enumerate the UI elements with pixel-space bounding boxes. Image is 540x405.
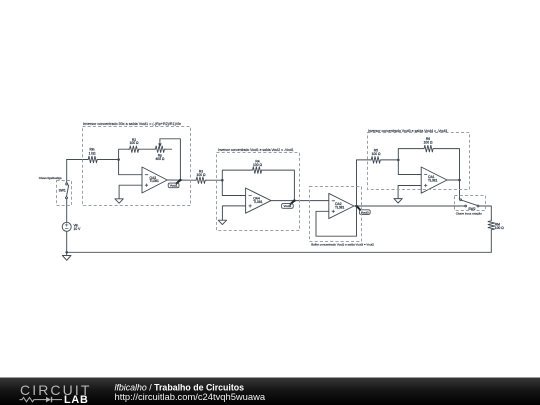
switch SW1 terminal bottom xyxy=(66,197,68,199)
node Vout2 label box xyxy=(282,204,294,209)
svg-text:Chave troca rotação: Chave troca rotação xyxy=(456,211,482,215)
wire buffer feedback loop xyxy=(316,206,357,236)
wire junction B up to R4 feedback xyxy=(222,170,251,180)
node Vout1 label box xyxy=(168,183,179,188)
wire junction B down to inverting input stage2 xyxy=(222,180,245,195)
wire junction C down to inverting input stage4 xyxy=(398,160,421,175)
resistor R4 xyxy=(252,167,263,174)
component value labels xyxy=(59,137,505,231)
wire R5 to junction C xyxy=(381,159,398,161)
op-amp OA1 xyxy=(421,167,447,193)
op-amp OA2 plus pin xyxy=(332,210,335,213)
annotation titles xyxy=(39,122,482,246)
switch SW1 blade xyxy=(66,185,68,197)
op-amp OA4 minus pin xyxy=(249,195,252,197)
node C junction dot xyxy=(397,159,400,162)
wire OA2 output rail to SW2 xyxy=(354,205,465,207)
annotation box stage3 buffer xyxy=(310,187,362,242)
wire SW1 to Vin xyxy=(66,199,68,223)
node D junction dot xyxy=(458,179,461,182)
svg-text:TL081: TL081 xyxy=(253,200,263,204)
wire OA4 output to buffer input xyxy=(271,200,329,202)
svg-text:10 V: 10 V xyxy=(74,227,82,231)
svg-text:http://circuitlab.com/c24tvqh5: http://circuitlab.com/c24tvqh5wuawa xyxy=(115,391,266,402)
svg-text:100 Ω: 100 Ω xyxy=(372,152,381,156)
wire bottom rail xyxy=(67,251,492,253)
wire input from source node to Rin xyxy=(67,159,88,161)
wire R4 to output vertical stage2 xyxy=(263,170,295,201)
ground main xyxy=(62,252,71,260)
node Vout1 flag tick xyxy=(177,180,181,183)
voltage source Vin xyxy=(62,222,71,231)
node B junction dot xyxy=(221,179,224,182)
resistor RM vertical xyxy=(488,220,495,231)
svg-text:Inversor concentrado 50x a saí: Inversor concentrado 50x a saída Vout1 =… xyxy=(83,122,181,126)
svg-text:100 Ω: 100 Ω xyxy=(130,141,139,145)
svg-text:Vout1: Vout1 xyxy=(170,184,178,188)
node Vout2 flag tick xyxy=(291,201,295,204)
ground stage1 xyxy=(115,199,123,203)
resistor Rin xyxy=(87,156,98,163)
wire source node up to input xyxy=(66,160,68,184)
node Vout3 junction dot xyxy=(355,205,358,208)
svg-text:LAB: LAB xyxy=(64,394,89,405)
op-amp OA1 minus pin xyxy=(424,174,427,176)
svg-text:400 Ω: 400 Ω xyxy=(155,157,164,161)
op-amp OA2 minus pin xyxy=(332,200,335,202)
switch SW2 blade xyxy=(461,200,477,205)
wire R3 to junction B xyxy=(206,179,222,181)
wire junction C up to R6 feedback xyxy=(398,149,423,160)
wire OA3 output to R3 xyxy=(167,179,195,181)
potentiometer Rp wiper arrow xyxy=(159,139,161,144)
wire R6 to output vertical stage4 xyxy=(434,149,459,180)
node GND junction dot xyxy=(65,251,68,254)
wire Vin to ground xyxy=(66,231,68,252)
op-amp OA2 buffer xyxy=(329,193,354,218)
svg-text:Inversor concentrado Vout1 e s: Inversor concentrado Vout1 e saída Vout2… xyxy=(218,148,294,152)
node Vout2 junction dot xyxy=(293,199,296,202)
svg-text:Vout3: Vout3 xyxy=(361,210,369,214)
annotation box SW2 xyxy=(455,196,486,211)
node Vout1 junction dot xyxy=(179,179,182,182)
annotation box stage1 xyxy=(83,127,191,206)
op-amp OA4 xyxy=(246,188,271,213)
annotation box stage2 xyxy=(217,153,300,231)
svg-text:100 Ω: 100 Ω xyxy=(424,141,433,145)
svg-text:100 Ω: 100 Ω xyxy=(197,173,206,177)
svg-text:100 Ω: 100 Ω xyxy=(253,163,262,167)
svg-text:SW2: SW2 xyxy=(468,207,475,211)
op-amp OA3 xyxy=(142,167,167,193)
wire non-inverting input to ground stage1 xyxy=(119,185,142,199)
node A junction dot xyxy=(117,158,120,161)
resistor R2 xyxy=(129,146,140,153)
op-amp OA4 plus pin xyxy=(249,205,252,208)
resistor R3 xyxy=(195,177,206,184)
wire junction A up to R2 xyxy=(119,149,129,159)
potentiometer Rp xyxy=(154,146,165,153)
wire RM to bottom rail xyxy=(490,231,492,253)
svg-text:1 kΩ: 1 kΩ xyxy=(89,151,96,155)
svg-text:Inversor concentrado Vout3 e s: Inversor concentrado Vout3 e saída Vout4… xyxy=(368,129,447,133)
ground stage4 xyxy=(394,199,402,203)
switch SW1 terminal top xyxy=(66,183,68,185)
node Vout3 label box xyxy=(359,210,370,215)
switch SW2 terminal right xyxy=(477,205,479,207)
dashed annotation boxes xyxy=(57,127,486,242)
resistor R6 xyxy=(423,145,434,152)
op-amp OA1 plus pin xyxy=(424,184,427,187)
resistor R5 xyxy=(370,156,381,163)
svg-text:Vout2: Vout2 xyxy=(284,204,292,208)
wire junction A down to inverting input xyxy=(119,160,142,175)
wire non-inverting input to ground stage2 xyxy=(222,206,245,220)
svg-text:TL081: TL081 xyxy=(150,179,160,183)
ground stage2 xyxy=(218,220,226,224)
svg-text:100 Ω: 100 Ω xyxy=(495,226,504,230)
logo squiggle xyxy=(20,397,63,402)
op-amp OA3 plus pin xyxy=(145,184,148,187)
svg-text:SW1: SW1 xyxy=(59,189,66,193)
wire Rp right stub xyxy=(165,148,171,150)
svg-text:Buffer concentrado Vout2 e saí: Buffer concentrado Vout2 e saída Vout3 =… xyxy=(311,242,374,246)
wire Rin to junction A xyxy=(98,159,118,161)
annotation box SW1 xyxy=(57,181,72,206)
wire OA1 output down to SW2 throw xyxy=(447,180,460,199)
node Vout3 flag tick xyxy=(357,206,361,210)
svg-text:TL081: TL081 xyxy=(335,205,345,209)
wire Vout3 up to R5 xyxy=(357,160,371,206)
wire SW2 to RM xyxy=(479,206,491,220)
annotation box stage4 xyxy=(368,133,470,190)
op-amp OA3 minus pin xyxy=(145,174,148,176)
svg-text:Chave liga/desliga: Chave liga/desliga xyxy=(39,176,62,180)
svg-text:TL081: TL081 xyxy=(428,178,438,182)
switch SW2 terminal left xyxy=(465,205,467,207)
wire non-inverting input to ground stage4 xyxy=(398,186,421,199)
wire R2 to Rp xyxy=(140,148,155,150)
wire feedback top stage1 xyxy=(160,139,181,180)
